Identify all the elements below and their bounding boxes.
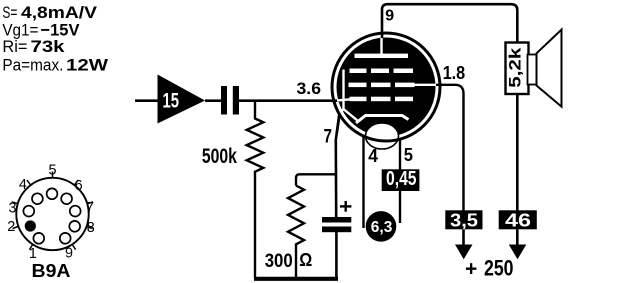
socket tick pin 6: [75, 180, 79, 185]
socket pin 6 hole: [61, 193, 72, 204]
socket pin 8 hole: [69, 221, 80, 232]
svg-text:2: 2: [7, 218, 15, 235]
wire heater pin 4: [362, 136, 364, 228]
svg-text:9: 9: [385, 8, 394, 25]
svg-text:5: 5: [49, 162, 57, 179]
label S parameter line: [2, 3, 97, 22]
label Ri parameter line: [2, 37, 65, 56]
svg-text:6: 6: [75, 177, 83, 194]
label Pa parameter line: [2, 56, 109, 75]
svg-text:12W: 12W: [66, 56, 109, 75]
socket tick pin 1: [29, 245, 32, 250]
socket pin 1 hole: [33, 233, 44, 244]
svg-text:B9A: B9A: [32, 261, 71, 281]
svg-text:46: 46: [505, 211, 531, 231]
socket pin 3 hole: [23, 206, 34, 217]
socket circle: [16, 178, 88, 250]
svg-text:4: 4: [19, 176, 27, 193]
svg-text:Pa=max.: Pa=max.: [2, 56, 63, 75]
label Vg1 parameter line: [2, 20, 80, 39]
socket tick pin 5: [52, 172, 54, 178]
svg-text:4: 4: [368, 146, 378, 166]
svg-text:3.6: 3.6: [297, 79, 322, 98]
svg-text:6,3: 6,3: [371, 219, 393, 236]
wire cathode pin 7: [336, 113, 340, 219]
svg-text:15: 15: [163, 90, 180, 113]
svg-text:7: 7: [86, 199, 94, 216]
socket tick pin 3: [12, 202, 18, 204]
wire screen stub: [434, 84, 444, 86]
socket tick pin 4: [27, 180, 31, 185]
socket tick pin 2: [13, 227, 19, 229]
socket pin 7 hole: [70, 206, 81, 217]
svg-text:1: 1: [29, 245, 37, 262]
svg-text:Ri=: Ri=: [2, 37, 27, 56]
circle 6,3: [366, 211, 397, 242]
capacitor C2 electrolytic: [322, 217, 351, 278]
wire grid: [239, 99, 340, 102]
svg-text:5,2k: 5,2k: [506, 47, 525, 88]
socket tick pin 7: [88, 202, 94, 204]
speaker: [528, 30, 562, 107]
socket pin 5 hole: [47, 188, 58, 199]
socket B9A: [7, 162, 95, 281]
capacitor coupling: [221, 86, 239, 115]
svg-text:S=: S=: [2, 3, 17, 22]
label 300 ohm: [265, 250, 313, 272]
tube mask circle: [334, 35, 438, 139]
wire cathode stub: [337, 112, 340, 134]
svg-text:3,5: 3,5: [450, 211, 478, 231]
svg-text:Ω: Ω: [299, 250, 312, 270]
box 0,45: [382, 168, 420, 191]
resistor R1 500k: [247, 101, 264, 278]
svg-text:7: 7: [324, 126, 333, 148]
wire grid stub: [333, 99, 340, 102]
input source triangle 15: [158, 75, 206, 124]
wire triangle to capacitor: [205, 99, 221, 102]
tube envelope disc: [337, 38, 436, 137]
socket pin 4 hole: [32, 193, 43, 204]
tube anode bar: [355, 54, 409, 58]
svg-text:73k: 73k: [31, 37, 66, 56]
tube anode lead: [380, 38, 382, 55]
svg-text:5: 5: [404, 145, 413, 165]
load 5,2k transformer: [506, 43, 529, 95]
wire cathode branch to R2: [296, 174, 336, 185]
arrow screen current: [455, 229, 473, 259]
tube heater circle: [366, 123, 399, 149]
wire input left: [135, 99, 159, 102]
tube grid g1 row: [350, 97, 414, 102]
svg-text:9: 9: [65, 245, 73, 262]
socket tick pin 9: [72, 245, 75, 250]
tube grid g1 lead: [337, 99, 352, 100]
tube grid g2 row: [349, 83, 437, 88]
box 46: [499, 210, 537, 230]
wire anode stub: [381, 32, 384, 40]
svg-text:0,45: 0,45: [386, 168, 417, 190]
svg-text:+: +: [465, 258, 477, 281]
tube g3 cathode tie: [339, 70, 358, 122]
svg-text:300: 300: [265, 251, 293, 272]
tube grid g3 row: [350, 69, 414, 74]
wire ground rail: [254, 277, 338, 281]
svg-text:500k: 500k: [202, 145, 237, 168]
label plus polarity: [340, 201, 351, 212]
svg-text:3: 3: [9, 200, 17, 217]
wire anode top: [382, 4, 517, 43]
socket pin 2 hole filled: [25, 220, 36, 231]
wire anode current: [516, 94, 519, 211]
wire screen grid to 3,5: [435, 85, 464, 211]
box 3,5: [445, 210, 482, 230]
svg-text:4,8mA/V: 4,8mA/V: [21, 3, 98, 22]
resistor R2 300 ohm: [288, 186, 304, 279]
tube ring: [332, 33, 440, 141]
svg-text:8: 8: [87, 219, 95, 236]
arrow anode current: [509, 229, 527, 259]
wire heater pin 5: [399, 139, 401, 223]
tube V1: [332, 32, 443, 150]
socket tick pin 8: [87, 227, 93, 229]
svg-text:250: 250: [484, 256, 514, 281]
svg-text:1.8: 1.8: [443, 63, 466, 83]
tube cathode: [356, 116, 409, 124]
socket pin 9 hole: [60, 233, 71, 244]
